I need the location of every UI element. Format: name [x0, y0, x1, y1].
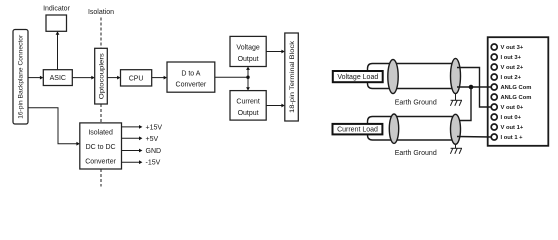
+5V output [122, 136, 159, 143]
wire junction down to current cable top conductor [457, 87, 471, 121]
voltage load [333, 71, 383, 82]
voltage output [230, 36, 266, 66]
svg-text:+5V: +5V [146, 136, 159, 143]
svg-text:DC to DC: DC to DC [86, 144, 116, 151]
svg-text:Current Load: Current Load [337, 127, 378, 134]
current load [333, 124, 383, 134]
svg-text:V out 3+: V out 3+ [501, 45, 524, 51]
terminal I out 2+ [491, 74, 521, 81]
svg-text:I out 1 +: I out 1 + [501, 135, 524, 141]
terminal ANLG Com 1 [491, 84, 531, 91]
16-pin backplane connector [13, 30, 28, 125]
current load cable tube [368, 117, 457, 141]
svg-text:D to A: D to A [181, 71, 200, 78]
svg-text:V out 2+: V out 2+ [501, 65, 524, 71]
svg-text:ANLG Com: ANLG Com [501, 95, 532, 101]
-15V output [122, 160, 161, 167]
isolation dashed line [100, 18, 102, 187]
svg-text:ANLG Com: ANLG Com [501, 85, 532, 91]
svg-text:Indicator: Indicator [43, 6, 71, 13]
wire D to A to output branch [215, 67, 250, 91]
current output [230, 91, 266, 121]
svg-text:V out 1+: V out 1+ [501, 125, 524, 131]
+15V output [122, 124, 163, 131]
svg-text:Current: Current [236, 99, 259, 106]
GND output [122, 148, 162, 155]
wire backplane to DC-DC converter [28, 108, 80, 146]
svg-text:Isolation: Isolation [88, 9, 114, 16]
ASIC U1 [43, 70, 72, 86]
wire voltage output to terminal block [266, 50, 285, 54]
earth ground symbol bottom [450, 144, 462, 154]
voltage load cable tube [368, 64, 457, 89]
earth ground symbol top [450, 93, 462, 106]
terminal ANLG Com 2 [491, 94, 531, 101]
wire ASIC to indicator [56, 31, 60, 70]
wire CPU to D to A [152, 76, 167, 80]
terminal I out 0+ [491, 114, 521, 121]
svg-text:I out 2+: I out 2+ [501, 75, 522, 81]
terminal I out 1+ [491, 134, 523, 141]
svg-text:V out 0+: V out 0+ [501, 105, 524, 111]
current load cable left shield ellipse [389, 114, 398, 143]
svg-text:Isolated: Isolated [88, 130, 113, 137]
terminal block [488, 37, 549, 146]
wire backplane to ASIC [28, 76, 43, 80]
wire current output to terminal block [266, 104, 285, 108]
svg-text:-15V: -15V [146, 160, 161, 167]
current load cable right shield ellipse [451, 114, 461, 144]
indicator box [46, 15, 67, 31]
wire current cable bottom conductor to I out 1+ [457, 136, 491, 139]
wire voltage cable top conductor to V out 0+ [457, 68, 491, 108]
wire ASIC to optocouplers [72, 76, 94, 80]
terminal V out 3+ [491, 44, 524, 51]
junction ANLG Com node [469, 85, 474, 90]
svg-text:Converter: Converter [176, 82, 207, 89]
18-pin terminal block [285, 33, 299, 121]
svg-text:Output: Output [238, 110, 259, 117]
svg-text:+15V: +15V [146, 124, 163, 131]
isolated DC to DC converter [80, 123, 122, 169]
svg-text:Voltage: Voltage [236, 45, 259, 52]
svg-text:Earth Ground: Earth Ground [395, 100, 437, 107]
svg-text:Converter: Converter [85, 159, 116, 166]
svg-text:ASIC: ASIC [50, 75, 66, 82]
svg-text:Output: Output [238, 56, 259, 63]
svg-text:GND: GND [146, 148, 162, 155]
voltage load cable right shield ellipse [451, 58, 461, 93]
svg-text:18-pin Terminal Block: 18-pin Terminal Block [290, 40, 296, 113]
D to A converter [167, 62, 215, 92]
terminal V out 1+ [491, 124, 524, 131]
wire voltage cable bottom conductor to ANLG Com [457, 86, 491, 88]
terminal V out 2+ [491, 64, 524, 71]
svg-text:Earth Ground: Earth Ground [395, 150, 437, 157]
svg-text:CPU: CPU [129, 75, 144, 82]
svg-text:I out 3+: I out 3+ [501, 55, 522, 61]
wire optocouplers to CPU [107, 76, 120, 80]
terminal I out 3+ [491, 54, 521, 61]
svg-text:Voltage Load: Voltage Load [337, 74, 378, 81]
optocouplers [95, 48, 108, 104]
svg-text:Optocouplers: Optocouplers [99, 53, 105, 99]
voltage load cable left shield ellipse [388, 60, 398, 94]
svg-text:16-pin Backplane Connector: 16-pin Backplane Connector [19, 35, 25, 119]
terminal V out 0+ [491, 104, 524, 111]
svg-text:I out 0+: I out 0+ [501, 115, 522, 121]
CPU U2 [121, 70, 152, 86]
